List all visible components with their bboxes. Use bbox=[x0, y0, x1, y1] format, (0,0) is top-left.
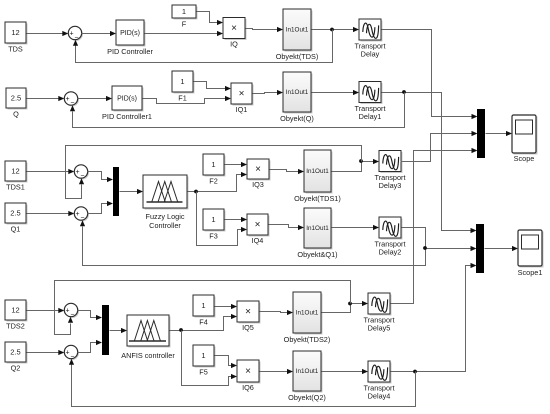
wire IQ4 to Obyekt&Q1 bbox=[269, 225, 299, 228]
constant F1 bbox=[174, 73, 195, 94]
svg-text:Delay1: Delay1 bbox=[359, 112, 382, 121]
svg-text:Obyekt(TDS1): Obyekt(TDS1) bbox=[294, 194, 341, 203]
svg-text:In1Out1: In1Out1 bbox=[296, 310, 319, 317]
product IQ1 bbox=[233, 85, 254, 106]
svg-text:1: 1 bbox=[211, 160, 215, 169]
constant F5 bbox=[195, 347, 216, 368]
wire Transport Delay3 to Mux1 in2 bbox=[401, 134, 473, 162]
svg-text:Obyekt(TDS2): Obyekt(TDS2) bbox=[284, 335, 331, 344]
svg-text:2.5: 2.5 bbox=[11, 94, 21, 103]
constant TDS bbox=[7, 24, 28, 45]
svg-text:2.5: 2.5 bbox=[10, 348, 20, 357]
svg-text:Q2: Q2 bbox=[11, 364, 21, 373]
node junction fuzzy output bbox=[194, 190, 198, 194]
wire Mux2 to Scope1 bbox=[485, 248, 513, 250]
transport delay Transport Delay4 bbox=[370, 363, 392, 384]
svg-text:×: × bbox=[255, 220, 261, 231]
wire Sum1 to PID Controller bbox=[82, 33, 111, 35]
wire PID Controller1 to IQ1 in2 bbox=[143, 99, 226, 104]
product IQ bbox=[225, 19, 247, 40]
svg-text:×: × bbox=[231, 23, 237, 34]
svg-text:Delay: Delay bbox=[361, 50, 380, 59]
mux Mux2 bbox=[476, 224, 484, 273]
transport delay Transport Delay3 bbox=[381, 152, 403, 173]
wire Sum3 to Mux3 in1 bbox=[88, 172, 108, 180]
svg-text:IQ: IQ bbox=[230, 40, 238, 49]
scope Scope bbox=[514, 117, 538, 155]
svg-text:12: 12 bbox=[11, 306, 19, 315]
subsystem Obyekt&Q1 bbox=[306, 210, 333, 250]
svg-text:+: + bbox=[66, 349, 70, 356]
svg-text:PID Controller1: PID Controller1 bbox=[102, 112, 152, 121]
wire Transport Delay2 to Mux2 in2 and feedback bbox=[89, 228, 426, 266]
wire IQ to Obyekt(TDS) bbox=[246, 29, 278, 30]
transport delay Transport Delay2 bbox=[381, 219, 403, 240]
wire Obyekt&Q1 to Transport Delay2 bbox=[332, 227, 374, 229]
svg-text:−: − bbox=[70, 353, 74, 360]
svg-text:Controller: Controller bbox=[149, 221, 181, 230]
constant TDS1 bbox=[7, 163, 28, 183]
node junction row4 TDS output bbox=[348, 302, 352, 306]
svg-text:In1Out1: In1Out1 bbox=[286, 89, 309, 96]
wire IQ1 to Obyekt(Q) bbox=[253, 93, 278, 94]
constant Q bbox=[8, 90, 28, 110]
wire feedback row4 TDS to Sum5 bbox=[55, 281, 351, 335]
svg-text:IQ4: IQ4 bbox=[252, 236, 264, 245]
svg-text:Obyekt(Q2): Obyekt(Q2) bbox=[288, 393, 326, 402]
svg-text:+: + bbox=[66, 307, 70, 314]
subsystem Obyekt(TDS) bbox=[285, 11, 313, 52]
svg-text:F4: F4 bbox=[199, 318, 208, 327]
constant Q1 bbox=[7, 205, 28, 225]
mux Mux3 bbox=[113, 167, 119, 216]
wire Transport Delay5 to Mux1 in3 bbox=[391, 151, 473, 304]
node junction row3 TDS output bbox=[359, 159, 363, 163]
wire Sum2 to PID Controller1 bbox=[78, 98, 107, 100]
wire Obyekt(Q2) to Transport Delay4 bbox=[322, 371, 363, 373]
svg-text:×: × bbox=[245, 307, 251, 318]
svg-text:1: 1 bbox=[201, 351, 205, 360]
wire Sum6 to Mux4 in2 bbox=[78, 343, 97, 353]
subsystem Obyekt(Q2) bbox=[295, 353, 323, 393]
fuzzy logic controller block bbox=[145, 177, 189, 210]
subsystem Obyekt(TDS1) bbox=[306, 152, 333, 194]
svg-text:F: F bbox=[182, 20, 187, 29]
svg-text:1: 1 bbox=[211, 215, 215, 224]
wire Q to Sum2 bbox=[27, 98, 59, 100]
wire Q2 to Sum6 bbox=[27, 352, 59, 354]
svg-text:12: 12 bbox=[11, 28, 19, 37]
svg-text:1: 1 bbox=[201, 301, 205, 310]
svg-text:−: − bbox=[80, 173, 84, 180]
wire feedback row2 to Sum2 bbox=[73, 93, 405, 128]
svg-text:PID Controller: PID Controller bbox=[107, 47, 153, 56]
wire Fuzzy out to IQ3 in2 bbox=[188, 175, 242, 192]
wire Mux3 to Fuzzy Logic Controller bbox=[120, 191, 138, 193]
sum Sum4 bbox=[76, 208, 89, 221]
wire Sum5 to Mux4 in1 bbox=[78, 311, 97, 318]
scope Scope1 bbox=[520, 232, 544, 268]
wire TDS2 to Sum5 bbox=[27, 310, 59, 312]
transport delay Transport Delay bbox=[361, 21, 383, 42]
wire F3 to IQ4 in1 bbox=[225, 219, 242, 221]
svg-text:Obyekt(TDS): Obyekt(TDS) bbox=[276, 52, 319, 61]
wire ANFIS out branch to IQ6 in2 bbox=[182, 331, 232, 386]
node junction row1 output bbox=[330, 28, 334, 32]
node junction row4 Q output bbox=[413, 370, 417, 374]
constant F3 bbox=[205, 211, 226, 232]
svg-text:F2: F2 bbox=[209, 177, 218, 186]
svg-text:+: + bbox=[66, 96, 70, 103]
svg-text:12: 12 bbox=[11, 167, 19, 176]
svg-text:Q: Q bbox=[13, 110, 19, 119]
svg-text:Delay2: Delay2 bbox=[379, 248, 402, 257]
wire feedback row3 Q to Sum4 bbox=[83, 227, 89, 266]
wire IQ6 to Obyekt(Q2) bbox=[260, 371, 288, 373]
node junction row2 output bbox=[402, 90, 406, 94]
wire Mux1 to Scope bbox=[486, 133, 507, 135]
wire Obyekt(TDS2) to Transport Delay5 bbox=[322, 304, 363, 313]
svg-text:+: + bbox=[76, 169, 80, 176]
wire F1 to IQ1 in1 bbox=[194, 82, 226, 89]
mux Mux1 bbox=[477, 109, 485, 158]
wire F2 to IQ3 in1 bbox=[225, 164, 242, 166]
PID block PID Controller1 bbox=[114, 88, 144, 112]
svg-text:Scope1: Scope1 bbox=[518, 268, 543, 277]
svg-text:In1Out1: In1Out1 bbox=[286, 27, 309, 34]
constant Q2 bbox=[7, 344, 28, 364]
wire F to IQ in1 bbox=[197, 12, 218, 23]
ANFIS controller block bbox=[129, 317, 171, 348]
svg-text:IQ1: IQ1 bbox=[236, 105, 248, 114]
product IQ5 bbox=[239, 303, 261, 324]
svg-text:Delay5: Delay5 bbox=[368, 324, 391, 333]
wire Obyekt(Q) to Transport Delay1 bbox=[312, 92, 354, 94]
constant F bbox=[174, 7, 198, 20]
subsystem Obyekt(Q) bbox=[285, 74, 313, 114]
wire ANFIS out to IQ5 in2 bbox=[170, 317, 232, 331]
svg-text:F1: F1 bbox=[178, 94, 187, 103]
wire Obyekt(TDS) to Transport Delay bbox=[312, 29, 354, 31]
svg-text:IQ6: IQ6 bbox=[242, 383, 254, 392]
product IQ3 bbox=[249, 161, 271, 181]
sum Sum1 bbox=[70, 28, 83, 41]
wire Sum4 to Mux3 in2 bbox=[88, 204, 108, 214]
svg-text:PID(s): PID(s) bbox=[117, 96, 137, 103]
svg-text:−: − bbox=[74, 34, 78, 41]
svg-text:TDS2: TDS2 bbox=[6, 322, 25, 331]
svg-text:F5: F5 bbox=[199, 368, 208, 377]
svg-text:F3: F3 bbox=[209, 232, 218, 241]
wire Transport Delay to Mux1 in1 bbox=[382, 30, 473, 117]
svg-text:TDS: TDS bbox=[8, 45, 23, 54]
sum Sum5 bbox=[66, 305, 79, 318]
svg-text:×: × bbox=[255, 164, 261, 175]
sum Sum6 bbox=[66, 347, 79, 360]
wire Transport Delay4 to Mux2 in3 bbox=[391, 266, 472, 372]
svg-text:Obyekt&Q1): Obyekt&Q1) bbox=[297, 250, 337, 259]
svg-text:Scope: Scope bbox=[514, 154, 535, 163]
product IQ6 bbox=[239, 362, 261, 384]
transport delay Transport Delay1 bbox=[361, 83, 383, 104]
wire feedback row3 TDS to Sum3 bbox=[66, 146, 362, 199]
sum Sum2 bbox=[66, 93, 79, 106]
svg-text:ANFIS controller: ANFIS controller bbox=[121, 351, 175, 360]
svg-text:1: 1 bbox=[182, 7, 186, 16]
svg-text:Fuzzy Logic: Fuzzy Logic bbox=[146, 212, 185, 221]
wire IQ5 to Obyekt(TDS2) bbox=[260, 312, 288, 313]
wire Obyekt(TDS1) to Transport Delay3 bbox=[332, 162, 374, 172]
wire TDS to Sum1 bbox=[27, 33, 63, 35]
svg-text:In1Out1: In1Out1 bbox=[306, 168, 329, 175]
svg-text:TDS1: TDS1 bbox=[6, 183, 25, 192]
transport delay Transport Delay5 bbox=[370, 295, 392, 316]
svg-text:IQ3: IQ3 bbox=[252, 180, 264, 189]
node junction ANFIS output bbox=[179, 328, 183, 332]
svg-text:IQ5: IQ5 bbox=[242, 323, 254, 332]
svg-text:Q1: Q1 bbox=[11, 225, 21, 234]
svg-text:−: − bbox=[70, 311, 74, 318]
PID block PID Controller bbox=[118, 22, 146, 47]
wire Fuzzy out branch to IQ4 in2 bbox=[197, 192, 242, 246]
svg-text:In1Out1: In1Out1 bbox=[296, 368, 319, 375]
wire feedback row4 Q to Sum6 bbox=[72, 365, 416, 407]
wire Mux4 to ANFIS controller bbox=[110, 330, 122, 332]
svg-text:2.5: 2.5 bbox=[10, 209, 20, 218]
node junction row3 Q output bbox=[423, 246, 427, 250]
svg-text:Delay4: Delay4 bbox=[368, 392, 391, 401]
constant F2 bbox=[205, 156, 226, 177]
wire IQ3 to Obyekt(TDS1) bbox=[270, 170, 299, 172]
svg-text:×: × bbox=[245, 366, 251, 377]
constant F4 bbox=[195, 297, 216, 318]
svg-text:Obyekt(Q): Obyekt(Q) bbox=[280, 114, 314, 123]
svg-text:+: + bbox=[70, 30, 74, 37]
svg-text:PID(s): PID(s) bbox=[120, 30, 140, 37]
wire F4 to IQ5 in1 bbox=[215, 306, 232, 308]
wire feedback row1 to Sum1 bbox=[76, 30, 333, 63]
mux Mux4 bbox=[102, 305, 109, 355]
wire TDS1 to Sum3 bbox=[27, 171, 69, 173]
wire Q1 to Sum4 bbox=[27, 213, 69, 215]
svg-text:In1Out1: In1Out1 bbox=[306, 225, 329, 232]
sum Sum3 bbox=[76, 166, 89, 179]
constant TDS2 bbox=[7, 302, 28, 322]
product IQ4 bbox=[249, 216, 270, 237]
svg-text:+: + bbox=[76, 211, 80, 218]
wire PID Controller to IQ in2 bbox=[145, 33, 218, 35]
svg-text:1: 1 bbox=[180, 77, 184, 86]
wire Transport Delay1 to Mux2 in1 bbox=[382, 93, 472, 231]
subsystem Obyekt(TDS2) bbox=[295, 294, 323, 335]
svg-text:Delay3: Delay3 bbox=[379, 181, 402, 190]
svg-text:×: × bbox=[239, 89, 245, 100]
wire F5 to IQ6 in1 bbox=[215, 356, 232, 366]
